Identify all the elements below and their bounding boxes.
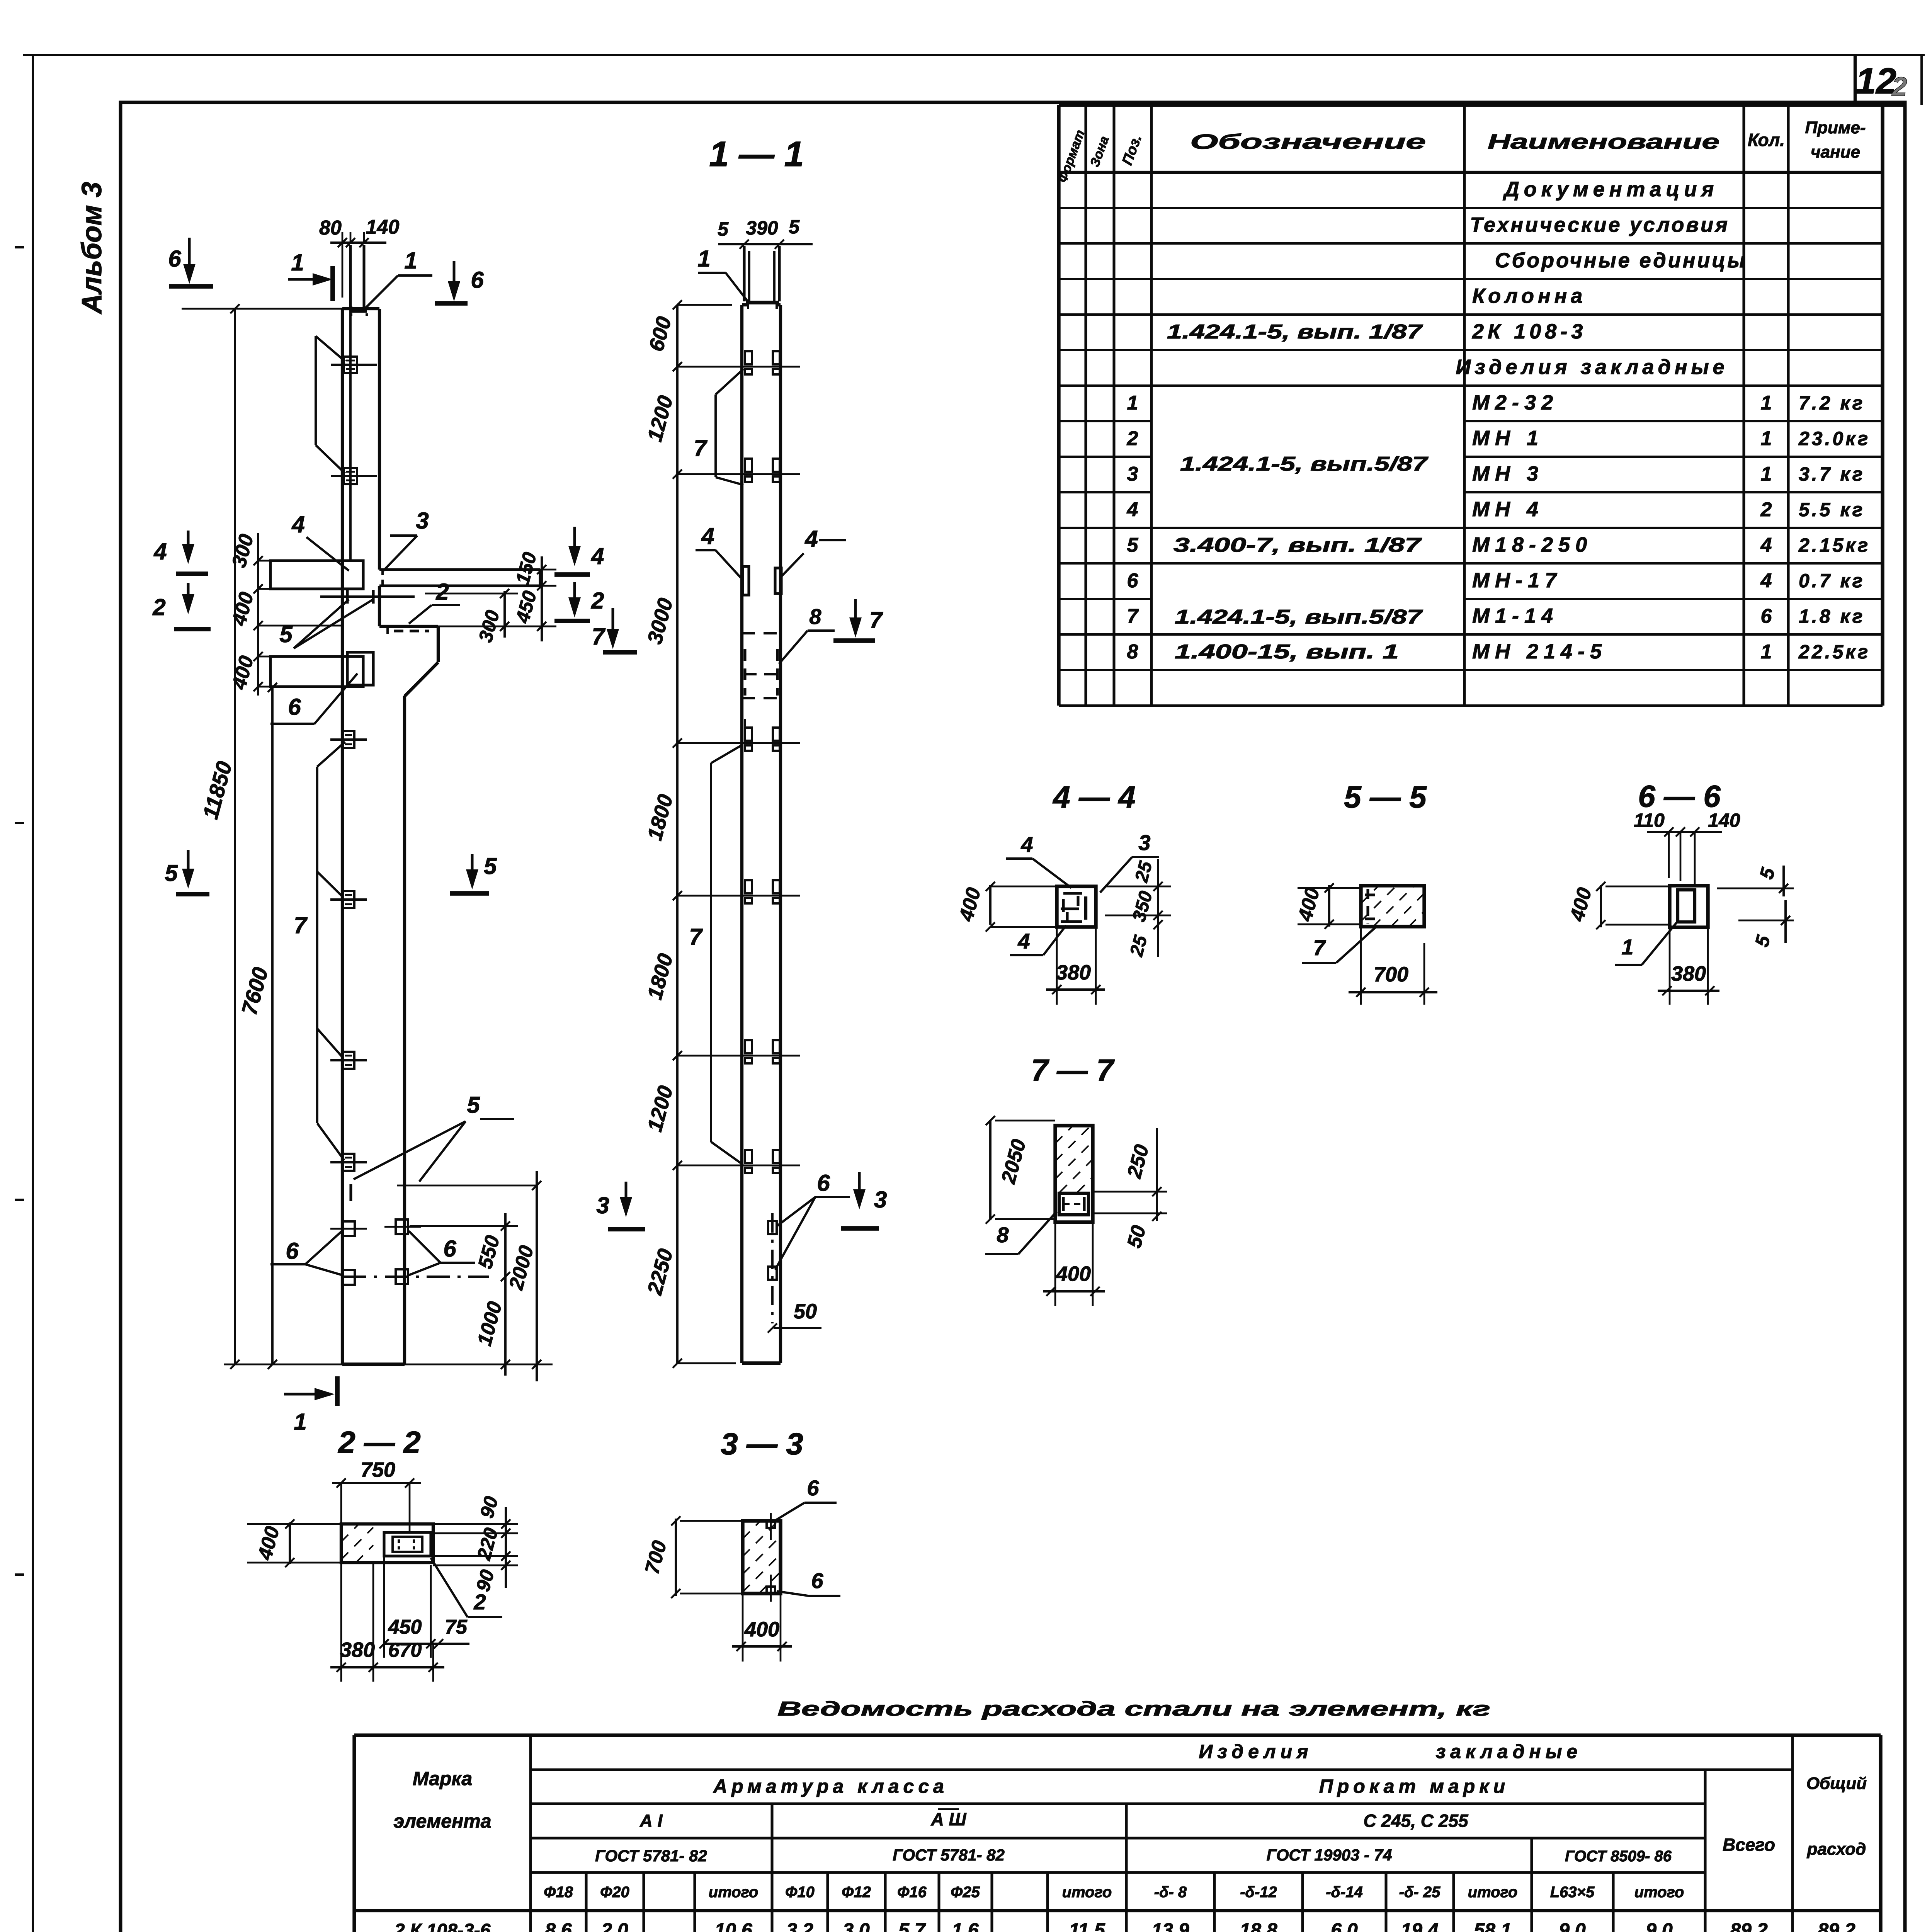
svg-text:-δ- 8: -δ- 8 [1154,1884,1187,1901]
svg-text:Колонна: Колонна [1472,284,1586,308]
svg-text:5: 5 [467,1092,480,1118]
svg-text:670: 670 [388,1639,422,1662]
svg-text:3 — 3: 3 — 3 [721,1427,803,1461]
svg-text:400: 400 [744,1618,779,1641]
svg-text:4: 4 [1017,929,1030,953]
svg-text:Всего: Всего [1723,1835,1775,1855]
svg-text:7: 7 [1313,935,1326,960]
svg-text:8: 8 [1127,641,1138,663]
svg-text:6.0: 6.0 [1331,1919,1358,1932]
column right edge lower with step [378,586,381,626]
svg-text:19.4: 19.4 [1401,1919,1438,1932]
sheet outer left edge line [32,55,34,1932]
svg-text:5.5 кг: 5.5 кг [1799,499,1865,520]
svg-text:Ф18: Ф18 [544,1884,573,1901]
svg-text:380: 380 [1056,961,1091,984]
2-2 outline [341,1524,433,1563]
svg-text:расход: расход [1807,1840,1866,1859]
svg-text:6: 6 [168,246,181,272]
svg-text:380: 380 [1671,962,1706,985]
svg-text:4: 4 [1127,498,1138,521]
svg-text:Ф12: Ф12 [842,1884,871,1901]
svg-text:5: 5 [789,216,800,238]
svg-text:1: 1 [291,250,304,276]
svg-text:1: 1 [1761,392,1772,414]
svg-text:1: 1 [1127,392,1138,414]
svg-text:Ф25: Ф25 [951,1884,980,1901]
overall dim 11850 [234,309,236,1364]
svg-text:140: 140 [1708,810,1740,831]
svg-text:закладные: закладные [1436,1741,1582,1762]
svg-text:1.8 кг: 1.8 кг [1799,605,1865,627]
svg-text:Ф10: Ф10 [785,1884,815,1901]
svg-text:1.424.1-5, вып.5/87: 1.424.1-5, вып.5/87 [1175,606,1423,628]
svg-text:0.7 кг: 0.7 кг [1799,570,1865,592]
5-5 rect hatched [1361,886,1424,927]
svg-text:1: 1 [697,246,710,272]
6-6 dim 380 [1658,990,1719,992]
svg-text:2: 2 [1127,427,1138,450]
7-7 rect hatched [1055,1126,1093,1222]
svg-text:3: 3 [596,1192,609,1218]
7-7 dim 400 [1043,1290,1105,1293]
section mark 1 bottom [335,1376,340,1406]
6-6 right 5 dims [1782,866,1785,896]
svg-text:5.7: 5.7 [898,1919,926,1932]
svg-text:58.1: 58.1 [1474,1919,1511,1932]
svg-text:-δ-12: -δ-12 [1240,1884,1277,1901]
svg-text:1.400-15, вып. 1: 1.400-15, вып. 1 [1175,641,1399,663]
svg-text:75: 75 [445,1616,468,1638]
svg-text:13.9: 13.9 [1151,1919,1189,1932]
4-4 dim 400 [989,885,992,925]
svg-text:6: 6 [811,1568,823,1593]
svg-text:2: 2 [152,594,165,620]
svg-text:3: 3 [416,508,429,534]
section mark 6 top right [453,261,456,298]
svg-text:18.8: 18.8 [1240,1919,1277,1932]
svg-text:Ведомость расхода стали: Ведомость расхода стали на элемент, кг [777,1698,1490,1720]
svg-text:5: 5 [484,853,497,879]
svg-text:Обозначение: Обозначение [1190,130,1426,153]
svg-text:МН 1: МН 1 [1472,427,1544,450]
svg-text:4: 4 [1020,832,1033,857]
svg-text:Арматура класса: Арматура класса [713,1776,948,1797]
svg-text:итого: итого [709,1884,759,1901]
svg-text:750: 750 [361,1458,395,1481]
svg-text:итого: итого [1468,1884,1518,1901]
svg-text:А I: А I [639,1811,663,1831]
2-2 dims 450/75 [384,1643,469,1645]
svg-text:3: 3 [1127,463,1138,485]
right dims 550/1000/2000 [504,1213,507,1376]
svg-text:380: 380 [340,1638,375,1662]
7-7 dim 2050 [989,1120,992,1220]
svg-text:7 — 7: 7 — 7 [1031,1053,1115,1087]
svg-text:8: 8 [997,1223,1009,1247]
left elevation: column outline [341,309,344,1364]
svg-text:3: 3 [1138,830,1150,855]
dim 7600 [271,687,274,1364]
4-4 square [1057,886,1096,927]
svg-text:1: 1 [1761,427,1772,450]
svg-text:1: 1 [1761,641,1772,663]
svg-text:Документация: Документация [1503,178,1718,201]
svg-text:1: 1 [1761,463,1772,485]
6-6 dim 400 [1600,885,1602,927]
svg-text:6: 6 [471,267,484,293]
section mark 6 top left [188,238,191,280]
svg-text:9.0: 9.0 [1559,1919,1586,1932]
svg-text:6: 6 [807,1476,819,1500]
svg-text:7: 7 [1127,605,1139,628]
svg-text:элемента: элемента [393,1810,491,1832]
svg-text:Общий: Общий [1806,1774,1867,1793]
1-1 level lines across column [732,366,800,368]
svg-text:1.424.1-5, вып.5/87: 1.424.1-5, вып.5/87 [1180,453,1429,475]
svg-text:4: 4 [1760,570,1772,592]
svg-text:9.0: 9.0 [1646,1919,1673,1932]
svg-text:итого: итого [1062,1884,1112,1901]
svg-text:-δ- 25: -δ- 25 [1399,1884,1440,1901]
svg-text:1: 1 [294,1409,306,1435]
svg-text:6: 6 [817,1170,830,1196]
svg-text:50: 50 [794,1300,817,1323]
svg-text:3: 3 [874,1187,887,1213]
svg-text:С 245, С 255: С 245, С 255 [1363,1811,1468,1831]
svg-text:Изделия: Изделия [1199,1741,1313,1762]
svg-text:23.0кг: 23.0кг [1798,428,1870,449]
svg-text:МН-17: МН-17 [1472,569,1562,592]
svg-text:ГОСТ 8509- 86: ГОСТ 8509- 86 [1565,1848,1672,1865]
svg-text:6 — 6: 6 — 6 [1638,779,1721,813]
svg-text:80: 80 [319,217,342,239]
svg-text:4: 4 [291,512,304,537]
svg-text:2 — 2: 2 — 2 [337,1425,420,1459]
svg-text:6: 6 [443,1236,456,1262]
1-1 embed pairs at levels [745,351,752,364]
1-1 poz7 bracket upper [714,395,717,477]
svg-text:2.0: 2.0 [601,1919,628,1932]
svg-text:10.6: 10.6 [714,1919,753,1932]
svg-text:6: 6 [1761,605,1772,628]
svg-text:Кол.: Кол. [1748,130,1785,150]
svg-text:чание: чание [1811,143,1860,162]
svg-text:Ф20: Ф20 [600,1884,629,1901]
svg-text:1: 1 [1621,935,1633,959]
svg-text:Марка: Марка [413,1768,472,1789]
3-3 embeds poz6 [767,1521,775,1528]
svg-text:2: 2 [435,579,449,605]
level line with poz5 ticks (corbel) [320,595,415,598]
svg-text:390: 390 [746,217,778,239]
section mark 7 pair [854,599,857,634]
corbel dims 300/400/400 left [257,533,259,696]
svg-text:М18-250: М18-250 [1472,533,1592,556]
leader bracket lower poz7 [316,767,318,1123]
svg-text:3.0: 3.0 [843,1919,870,1932]
1-1 poz7 bracket lower [710,763,712,1142]
svg-text:МН 3: МН 3 [1472,462,1544,485]
svg-text:М2-32: М2-32 [1472,391,1558,414]
leader 1 top right [366,276,398,308]
dim 300 below beam [503,591,506,638]
svg-text:2: 2 [1760,498,1772,521]
svg-text:7: 7 [869,607,883,633]
svg-text:Прокат марки: Прокат марки [1319,1776,1509,1797]
svg-text:2: 2 [591,588,604,614]
svg-text:2 К 108-3-6: 2 К 108-3-6 [394,1920,491,1932]
svg-text:5: 5 [1127,534,1139,556]
corbel beam poz3 outline [379,568,540,571]
svg-text:4: 4 [1760,534,1772,556]
7-7 dims 250/50 [1156,1128,1158,1221]
svg-text:89.2: 89.2 [1818,1919,1855,1932]
svg-text:4: 4 [701,523,714,549]
svg-text:итого: итого [1634,1884,1684,1901]
1-1 poz4 plates mid [743,566,749,595]
3-3 dim 400 [732,1645,792,1648]
svg-text:ГОСТ 5781- 82: ГОСТ 5781- 82 [595,1847,707,1865]
svg-text:2К 108-3: 2К 108-3 [1472,320,1587,343]
svg-text:7.2 кг: 7.2 кг [1799,392,1865,414]
leader bracket upper poz7 [315,336,317,445]
svg-text:7: 7 [694,435,707,461]
3-3 dim 700 [675,1519,677,1596]
svg-text:А Ш: А Ш [930,1809,966,1829]
svg-text:3.7 кг: 3.7 кг [1799,463,1865,485]
svg-text:ГОСТ 5781- 82: ГОСТ 5781- 82 [893,1846,1005,1864]
svg-text:Приме-: Приме- [1805,118,1866,137]
svg-text:4: 4 [591,543,604,569]
embed poz4 rect on left face [270,561,363,589]
svg-text:4: 4 [804,526,818,552]
section marks 4,2,7 right [573,527,576,562]
sheet number box 12 top right [1854,55,1857,102]
svg-text:8.6: 8.6 [545,1919,572,1932]
svg-text:5: 5 [165,860,178,886]
2-2 dims 380/670 [330,1666,444,1668]
1-1 top tab [743,246,745,301]
svg-text:1.424.1-5, вып. 1/87: 1.424.1-5, вып. 1/87 [1167,321,1423,343]
2-2 embed poz2 plates [384,1532,431,1556]
svg-text:1 — 1: 1 — 1 [709,134,804,174]
svg-text:Ф16: Ф16 [897,1884,927,1901]
svg-text:Изделия закладные: Изделия закладные [1456,355,1728,379]
1-1 top dims 5/390/5 [718,243,813,245]
svg-text:L63×5: L63×5 [1550,1884,1595,1901]
svg-text:ГОСТ 19903 - 74: ГОСТ 19903 - 74 [1267,1846,1392,1864]
svg-text:8: 8 [809,604,821,629]
svg-text:89.2: 89.2 [1730,1919,1768,1932]
svg-text:3.400-7, вып. 1/87: 3.400-7, вып. 1/87 [1173,534,1422,556]
svg-text:110: 110 [1634,810,1665,831]
svg-text:11.5: 11.5 [1069,1919,1105,1932]
top dim 80/140 [330,241,386,244]
section mark 1 top [330,266,335,301]
svg-text:6: 6 [288,694,301,720]
svg-text:1: 1 [404,248,417,274]
2-2 dim 400 left [289,1522,291,1564]
svg-text:7: 7 [592,624,605,650]
1-1 column outline [740,305,743,1363]
lower poz6 embeds [342,1221,355,1236]
svg-text:М1-14: М1-14 [1472,604,1558,628]
svg-text:2: 2 [1891,71,1907,102]
5-5 dim 700 [1349,991,1437,993]
embed poz1 plate at column top [351,310,367,313]
base extension line [224,1364,342,1366]
svg-text:МН 4: МН 4 [1472,498,1544,521]
svg-text:Сборочные единицы: Сборочные единицы [1495,249,1747,272]
svg-text:2.15кг: 2.15кг [1798,534,1870,556]
1-1 bottom poz6 embeds [771,1213,774,1323]
specification table grid [1059,103,1905,107]
7-7 embed poz8 [1059,1193,1088,1215]
svg-text:Наименование: Наименование [1488,130,1719,153]
svg-text:12: 12 [1855,61,1896,102]
section mark 5 right [471,854,474,886]
svg-text:5: 5 [718,218,729,240]
1-1 poz8 dashed embed MN214-5 [742,632,781,634]
svg-text:7: 7 [689,924,703,950]
svg-text:140: 140 [366,216,400,238]
svg-text:3.2: 3.2 [786,1919,813,1932]
svg-text:Альбом 3: Альбом 3 [77,182,107,315]
embed poz2 dashed under beam [386,626,389,634]
svg-text:700: 700 [1374,963,1408,986]
middle embeds poz7 x4 [343,731,354,748]
level line 2000 top [397,1185,537,1187]
svg-text:400: 400 [1056,1262,1091,1286]
4-4 dim 380 [1046,988,1105,991]
svg-text:1.6: 1.6 [952,1919,979,1932]
svg-text:2: 2 [473,1590,486,1614]
fold marks dashes left edge [15,246,24,248]
right dims 150/450 of corbel [541,556,543,641]
svg-text:450: 450 [388,1616,422,1638]
1-1 dimension chain [676,305,679,1363]
svg-text:МН 214-5: МН 214-5 [1472,640,1607,663]
6-6 square with tab recess [1670,886,1708,927]
section mark 3 pair [625,1182,628,1213]
svg-text:7: 7 [294,912,308,938]
svg-text:5 — 5: 5 — 5 [1344,780,1427,814]
steel table grid [354,1733,1881,1737]
top tab protrusion [349,245,352,309]
sheet outer top edge line [23,54,1925,56]
svg-text:6: 6 [1127,570,1139,592]
1-1 embed poz1 plate [746,301,779,304]
3-3 rect hatched [743,1521,781,1594]
svg-text:4 — 4: 4 — 4 [1052,780,1135,814]
5-5 dim 400 [1328,885,1330,927]
upper embeds poz7 pair [344,357,357,373]
2-2 right dims 90/220/90 [505,1507,507,1588]
svg-text:22.5кг: 22.5кг [1798,641,1870,663]
embed poz6 rect on left face [270,656,363,687]
svg-text:4: 4 [153,539,167,565]
svg-text:-δ-14: -δ-14 [1326,1884,1363,1901]
svg-text:6: 6 [286,1238,299,1264]
svg-text:Технические условия: Технические условия [1470,213,1730,236]
